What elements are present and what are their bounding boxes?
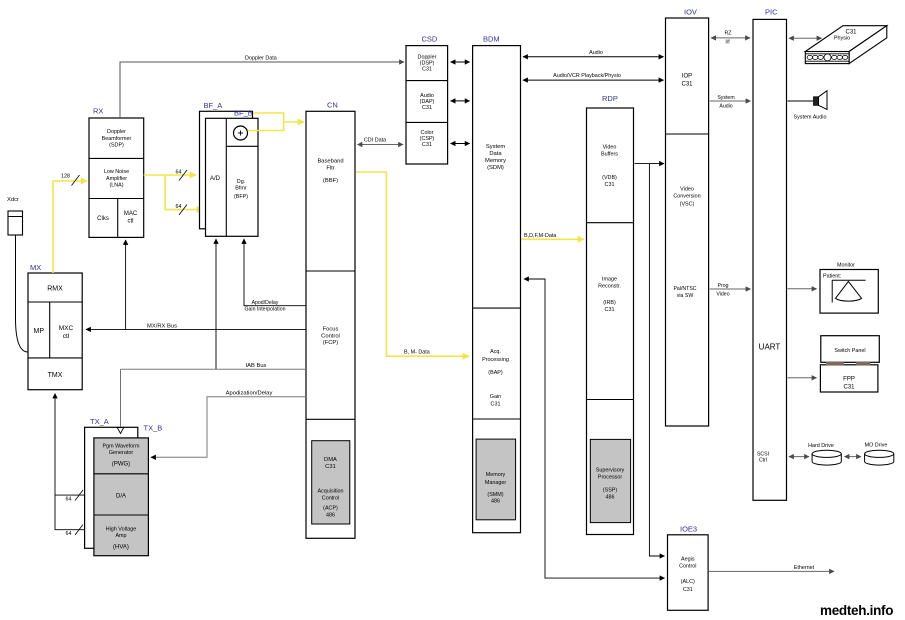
svg-text:IOP: IOP <box>682 74 692 80</box>
block IOV <box>666 8 709 427</box>
wire VDB to IOV <box>635 163 665 165</box>
wire Xdcr to MP <box>16 235 29 352</box>
svg-text:(FCP): (FCP) <box>323 340 339 346</box>
svg-text:BF_A: BF_A <box>204 101 223 110</box>
svg-text:Beamformer: Beamformer <box>102 136 132 142</box>
svg-text:Conversion: Conversion <box>673 193 700 199</box>
wire SCSI to Hard Drive <box>789 456 809 458</box>
svg-text:MAC: MAC <box>124 211 138 217</box>
wire Audio/VCR Playback/Physio <box>523 73 664 80</box>
svg-text:Monitor: Monitor <box>837 263 855 269</box>
wire UART to FPP <box>788 377 817 379</box>
svg-text:(ACP): (ACP) <box>323 506 338 512</box>
svg-text:Amplifier: Amplifier <box>106 176 127 182</box>
svg-text:Apod/Delay: Apod/Delay <box>252 300 279 306</box>
svg-text:B,D,F,M-Data: B,D,F,M-Data <box>524 233 556 239</box>
wire PIC to speaker <box>788 100 814 102</box>
svg-text:IOE3: IOE3 <box>680 525 697 534</box>
wire BDM to IOE3 <box>524 279 665 578</box>
svg-text:64: 64 <box>66 497 72 503</box>
svg-text:(BBF): (BBF) <box>323 178 338 184</box>
wire IAB bus to A/D <box>215 239 217 369</box>
svg-text:System: System <box>486 144 505 150</box>
svg-text:(LNA): (LNA) <box>109 183 123 189</box>
svg-text:Dg.: Dg. <box>237 179 245 185</box>
svg-text:(VDB): (VDB) <box>602 175 617 181</box>
svg-text:64: 64 <box>66 531 72 537</box>
svg-text:Apodization/Delay: Apodization/Delay <box>226 391 273 397</box>
svg-text:RMX: RMX <box>47 286 63 293</box>
svg-text:Control: Control <box>679 563 696 569</box>
svg-text:Supervisory: Supervisory <box>596 468 625 474</box>
wire LNA to A/D (64) <box>144 175 203 210</box>
transducer Xdcr <box>7 197 23 235</box>
wire Apod/Delay Gain Interpolation to BFP <box>244 239 306 313</box>
block RX <box>89 107 144 238</box>
svg-text:IOV: IOV <box>684 8 697 17</box>
svg-text:(BAP): (BAP) <box>488 370 503 376</box>
svg-text:TX_B: TX_B <box>144 424 163 433</box>
wire Hard Drive to MO Drive <box>845 456 862 458</box>
block MX <box>28 263 82 390</box>
speaker System Audio <box>794 91 827 121</box>
svg-text:DMA: DMA <box>324 457 337 463</box>
svg-text:C31: C31 <box>325 464 336 470</box>
svg-text:Aegis: Aegis <box>681 557 695 563</box>
svg-text:UART: UART <box>759 343 781 352</box>
label 64 upper <box>176 170 188 181</box>
svg-text:Reconstr.: Reconstr. <box>598 283 621 289</box>
block DMA/ACP (inside CN) <box>312 441 350 524</box>
svg-text:medteh.info: medteh.info <box>820 603 893 618</box>
block BF_B <box>206 109 259 237</box>
svg-text:Control: Control <box>321 333 340 339</box>
svg-text:C31: C31 <box>491 402 501 408</box>
svg-text:RDP: RDP <box>602 94 618 103</box>
wire RZ I/f (IOV-PIC) <box>711 31 750 46</box>
wire Prog Video to monitor <box>788 288 817 290</box>
svg-text:BDM: BDM <box>483 35 500 44</box>
svg-text:64: 64 <box>176 170 182 176</box>
wire PIC to Physio <box>789 37 822 39</box>
svg-text:C31: C31 <box>681 82 693 88</box>
wire BF_B to CN (yellow) <box>248 113 305 131</box>
wire CSD-BDM Audio <box>451 100 470 102</box>
svg-text:Processing: Processing <box>482 357 509 363</box>
wire Ethernet <box>709 565 834 571</box>
wire IAB bus <box>121 363 307 369</box>
svg-text:Ctrl: Ctrl <box>759 458 767 464</box>
wire System Audio (IOV-PIC) <box>710 95 751 110</box>
wire B,M-Data (yellow) <box>356 172 470 356</box>
block SMM (inside BDM) <box>476 439 515 520</box>
svg-text:Acquisition: Acquisition <box>317 489 343 495</box>
switch panel <box>821 336 880 363</box>
svg-text:(HVA): (HVA) <box>113 545 129 551</box>
watermark medteh.info <box>820 603 893 618</box>
physio module C31 (3D box) <box>805 26 887 64</box>
MO drive <box>865 443 894 466</box>
wire MX/RX bus <box>86 324 306 330</box>
svg-text:MO Drive: MO Drive <box>865 443 888 449</box>
svg-text:Focus: Focus <box>323 327 339 333</box>
svg-text:(ALC): (ALC) <box>681 579 695 585</box>
block TX_B <box>94 424 162 556</box>
svg-text:Video: Video <box>716 292 729 298</box>
svg-text:Bfmr: Bfmr <box>235 186 247 192</box>
svg-text:Generator: Generator <box>109 450 133 456</box>
block RDP <box>587 94 634 535</box>
svg-text:TMX: TMX <box>48 372 63 379</box>
wire Audio (BDM-IOV) <box>523 50 664 57</box>
block BDM <box>473 35 521 533</box>
block CSD <box>406 35 448 165</box>
connector hatches <box>826 362 870 365</box>
hard drive <box>808 443 841 465</box>
svg-text:Data: Data <box>489 151 502 157</box>
summing node <box>234 126 248 140</box>
wire CSD-BDM Color <box>451 143 470 145</box>
label 64 on HV line 2 <box>66 525 84 538</box>
block TX_A <box>85 417 138 548</box>
svg-text:Pal/NTSC: Pal/NTSC <box>673 286 696 292</box>
svg-text:High Voltage: High Voltage <box>106 527 137 533</box>
svg-text:Memory: Memory <box>485 158 506 164</box>
svg-text:Physio: Physio <box>834 36 850 42</box>
wire B,D,F,M-Data (yellow) <box>521 233 584 239</box>
svg-text:C31: C31 <box>422 105 432 111</box>
svg-text:MXC: MXC <box>59 325 74 332</box>
svg-text:Prog: Prog <box>718 283 729 289</box>
monitor <box>820 263 878 314</box>
wire IAB bus to TX_A <box>117 369 124 433</box>
svg-text:Ethernet: Ethernet <box>794 565 815 571</box>
svg-text:(VSC): (VSC) <box>680 202 695 208</box>
svg-text:PIC: PIC <box>765 8 778 17</box>
svg-text:486: 486 <box>491 499 500 505</box>
svg-text:System: System <box>717 95 734 101</box>
svg-text:(SDP): (SDP) <box>109 143 124 149</box>
svg-text:(IRB): (IRB) <box>603 300 616 306</box>
svg-text:CN: CN <box>327 101 338 110</box>
block IOE3 <box>668 525 709 611</box>
svg-text:RZ: RZ <box>725 31 732 37</box>
svg-text:Hard Drive: Hard Drive <box>808 443 834 449</box>
svg-text:FPP: FPP <box>843 377 855 383</box>
svg-text:Doppler: Doppler <box>107 129 126 135</box>
svg-text:Baseband: Baseband <box>317 159 343 165</box>
wire MAC ctl to MX/RX bus <box>125 240 127 329</box>
wire VDB branch to IOE3 <box>649 164 664 556</box>
svg-text:Pgm Waveform: Pgm Waveform <box>103 444 140 450</box>
svg-text:(PWG): (PWG) <box>112 462 130 468</box>
svg-text:Xdcr: Xdcr <box>7 197 19 203</box>
svg-text:486: 486 <box>326 513 335 519</box>
svg-text:Switch Panel: Switch Panel <box>834 348 865 354</box>
svg-text:Clks: Clks <box>97 216 109 222</box>
block PIC <box>753 8 787 501</box>
block BF_A <box>200 101 253 229</box>
svg-text:IAB Bus: IAB Bus <box>246 363 267 369</box>
wire TX to TMX <box>55 394 85 531</box>
svg-text:(SSP): (SSP) <box>603 488 618 494</box>
block SSP (inside RDP) <box>590 439 630 522</box>
svg-text:(SMM): (SMM) <box>487 492 503 498</box>
svg-text:TX_A: TX_A <box>90 417 109 426</box>
wire Apodization/Delay <box>151 391 306 458</box>
svg-text:C31: C31 <box>683 587 693 593</box>
label 64 on HV line 1 <box>66 490 84 503</box>
block FPP <box>820 365 878 392</box>
svg-text:CDI Data: CDI Data <box>364 138 386 144</box>
svg-text:B, M- Data: B, M- Data <box>404 350 430 356</box>
svg-text:A/D: A/D <box>210 176 221 182</box>
svg-text:BF_B: BF_B <box>234 109 253 118</box>
svg-text:Memory: Memory <box>486 472 506 478</box>
svg-text:64: 64 <box>176 204 182 210</box>
svg-text:486: 486 <box>606 495 615 501</box>
svg-text:MX/RX Bus: MX/RX Bus <box>147 324 177 330</box>
wire Doppler Data <box>120 56 404 119</box>
wire CSD-BDM Doppler <box>451 61 470 63</box>
svg-text:MX: MX <box>30 263 41 272</box>
svg-text:Gain: Gain <box>490 394 501 400</box>
svg-text:Audio: Audio <box>589 50 603 56</box>
svg-text:Amp: Amp <box>115 533 126 539</box>
svg-text:ctl: ctl <box>128 219 134 225</box>
svg-text:D/A: D/A <box>116 494 126 500</box>
svg-text:C31: C31 <box>422 67 432 73</box>
wire CDI Data <box>358 138 404 145</box>
svg-text:Low Noise: Low Noise <box>104 169 129 175</box>
svg-text:CSD: CSD <box>422 35 438 44</box>
svg-text:(SDM): (SDM) <box>487 165 504 171</box>
svg-text:Audio/VCR Playback/Physio: Audio/VCR Playback/Physio <box>553 73 621 79</box>
svg-text:Processor: Processor <box>598 474 622 480</box>
wire RMX to LNA (128) <box>53 174 87 274</box>
svg-text:C31: C31 <box>843 385 855 391</box>
svg-text:I/f: I/f <box>725 40 730 46</box>
svg-text:Video: Video <box>680 187 694 193</box>
svg-text:128: 128 <box>61 174 70 180</box>
svg-text:Fltr: Fltr <box>326 165 334 171</box>
svg-text:Gain Interpolation: Gain Interpolation <box>245 307 286 313</box>
svg-text:Acq.: Acq. <box>490 349 501 355</box>
svg-text:Audio: Audio <box>719 104 732 110</box>
svg-text:Patient:: Patient: <box>823 274 841 280</box>
svg-text:Video: Video <box>603 145 617 151</box>
svg-text:ctl: ctl <box>63 333 70 340</box>
svg-text:MP: MP <box>34 328 45 335</box>
svg-text:(BFP): (BFP) <box>234 194 248 200</box>
svg-text:C31: C31 <box>422 142 432 148</box>
svg-text:C31: C31 <box>605 182 615 188</box>
svg-text:Buffers: Buffers <box>601 151 618 157</box>
block CN <box>306 101 355 539</box>
svg-text:Doppler Data: Doppler Data <box>245 56 277 62</box>
svg-text:Control: Control <box>322 495 339 501</box>
label 64 lower <box>176 204 188 215</box>
svg-text:RX: RX <box>93 107 103 116</box>
svg-text:Image: Image <box>602 277 617 283</box>
svg-text:Manager: Manager <box>485 480 506 486</box>
wire Prog Video (IOV-PIC) <box>710 283 751 298</box>
svg-text:C31: C31 <box>605 307 615 313</box>
svg-text:System Audio: System Audio <box>794 115 827 121</box>
svg-text:via SW: via SW <box>677 293 694 299</box>
